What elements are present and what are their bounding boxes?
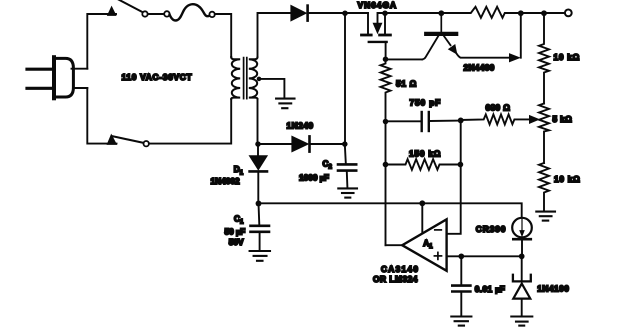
svg-text:CA3140: CA3140 <box>381 264 419 274</box>
transistor Q1 2N4400 <box>422 13 519 62</box>
switch S1a blade <box>118 0 145 13</box>
switch S1b blade <box>112 136 146 143</box>
output terminal <box>565 10 572 17</box>
node 0.01uF top <box>458 253 464 259</box>
transformer T1 primary winding <box>231 57 240 99</box>
wire diode to node <box>309 12 345 14</box>
svg-text:150 kΩ: 150 kΩ <box>409 148 441 158</box>
potentiometer 5k <box>539 104 549 164</box>
ground (divider) <box>536 212 555 221</box>
wire secondary bottom lead <box>257 99 259 144</box>
svg-text:1N4002: 1N4002 <box>211 176 240 186</box>
node MOSFET source on rail <box>382 10 388 16</box>
diode 1N249 <box>258 143 291 145</box>
ground (C1) <box>250 251 270 261</box>
wire emitter sense to rail <box>520 13 522 58</box>
ground (C2) <box>338 188 357 197</box>
switch S1a pivot circle <box>142 11 147 16</box>
wire plug to top switch <box>87 14 116 69</box>
wire feedback column (op-amp output up to gate) <box>385 122 387 246</box>
resistor 10k lower <box>539 163 549 211</box>
svg-text:50 µF: 50 µF <box>225 226 246 236</box>
svg-text:680 Ω: 680 Ω <box>486 102 511 112</box>
capacitor 750 pF <box>386 112 461 131</box>
switch S1a arrow contact <box>108 7 116 16</box>
switch S1b pivot circle <box>144 141 149 146</box>
wire secondary top lead <box>258 13 291 57</box>
svg-text:5 kΩ: 5 kΩ <box>553 114 573 124</box>
capacitor 0.01 uF <box>452 256 470 315</box>
wire plug top stub <box>72 68 88 70</box>
node 1N249 anode <box>255 141 261 147</box>
wiper arrow into 5k pot <box>530 116 539 124</box>
svg-text:50V: 50V <box>229 237 244 247</box>
wire op-amp output to apex <box>386 244 403 246</box>
svg-text:2N4400: 2N4400 <box>464 63 495 73</box>
zener diode 1N4100 <box>513 256 531 315</box>
resistor 51 ohm <box>381 59 391 121</box>
svg-text:OR LM324: OR LM324 <box>373 274 418 284</box>
svg-text:VN64GA: VN64GA <box>358 0 398 10</box>
node zener top <box>519 253 525 259</box>
wire node down to C2 node <box>344 13 346 144</box>
node 150k right <box>458 162 464 168</box>
resistor current sense (top) <box>441 7 521 18</box>
wire center tap to ground <box>259 79 284 98</box>
wire gate node to 2N4400 base <box>386 58 423 60</box>
transformer T1 secondary winding <box>249 57 258 99</box>
svg-text:1000 µF: 1000 µF <box>299 173 329 183</box>
wire fuse to transformer primary top <box>215 14 231 57</box>
wire V+ pin into op-amp <box>421 203 423 232</box>
node gate / 51 ohm top <box>383 56 389 62</box>
fuse F1 left terminal <box>164 11 169 16</box>
resistor 10k upper <box>539 13 549 104</box>
wire rail to output node <box>521 12 544 14</box>
node op-amp V+ pin on supply line <box>419 200 425 206</box>
svg-text:51 Ω: 51 Ω <box>396 79 417 89</box>
wire noninverting input line <box>447 255 522 257</box>
wire to output terminal <box>544 12 565 14</box>
resistor 150k <box>386 159 461 170</box>
wire plug bottom stub <box>73 87 87 89</box>
wire switch to fuse <box>148 13 165 15</box>
wire rail MOSFET to 2N4400 collector node <box>385 12 441 14</box>
wire plug to bottom switch <box>87 88 116 144</box>
node 750pF/680 junction <box>458 117 464 123</box>
svg-text:750 pF: 750 pF <box>410 97 442 107</box>
svg-text:1N4100: 1N4100 <box>537 284 569 294</box>
svg-text:CR390: CR390 <box>476 224 507 234</box>
ground (center tap) <box>276 99 294 109</box>
transformer T1 core <box>243 58 245 99</box>
ground (zener) <box>511 317 532 326</box>
node sense resistor right <box>518 10 524 16</box>
wire main supply line to CR390 <box>259 203 522 218</box>
capacitor C1 <box>251 204 270 250</box>
node center tap <box>257 77 262 82</box>
MOSFET VN64GA <box>362 13 391 59</box>
resistor 680 ohm <box>461 114 532 124</box>
node D1 cathode / C1 top <box>256 201 262 207</box>
svg-text:110 VAC-36VCT: 110 VAC-36VCT <box>122 72 193 82</box>
svg-text:1N249: 1N249 <box>287 121 314 131</box>
node rectifier output <box>342 10 348 16</box>
op-amp A1 CA3140 <box>402 219 446 270</box>
wire switch to transformer primary bottom <box>149 99 231 144</box>
node 750pF left <box>383 119 389 125</box>
node C2 top <box>342 141 348 147</box>
node 150k left <box>383 162 389 168</box>
svg-text:10 kΩ: 10 kΩ <box>554 174 581 184</box>
current regulator CR390 <box>512 218 532 255</box>
wire inverting column <box>448 120 461 233</box>
node 2N4400 collector on rail <box>438 10 444 16</box>
diode D1 <box>257 147 259 156</box>
ground (0.01uF) <box>451 317 471 326</box>
fuse F1 element <box>170 4 210 20</box>
rectifier diode top <box>291 6 306 21</box>
svg-text:10 kΩ: 10 kΩ <box>554 52 581 62</box>
switch S1b arrow contact <box>107 135 116 145</box>
fuse F1 right terminal <box>209 12 214 17</box>
svg-text:0.01 µF: 0.01 µF <box>475 284 505 294</box>
wire rail node to MOSFET drain <box>345 12 368 14</box>
AC plug P1 <box>27 57 73 98</box>
node output divider top <box>541 10 547 16</box>
capacitor C2 <box>338 144 356 187</box>
